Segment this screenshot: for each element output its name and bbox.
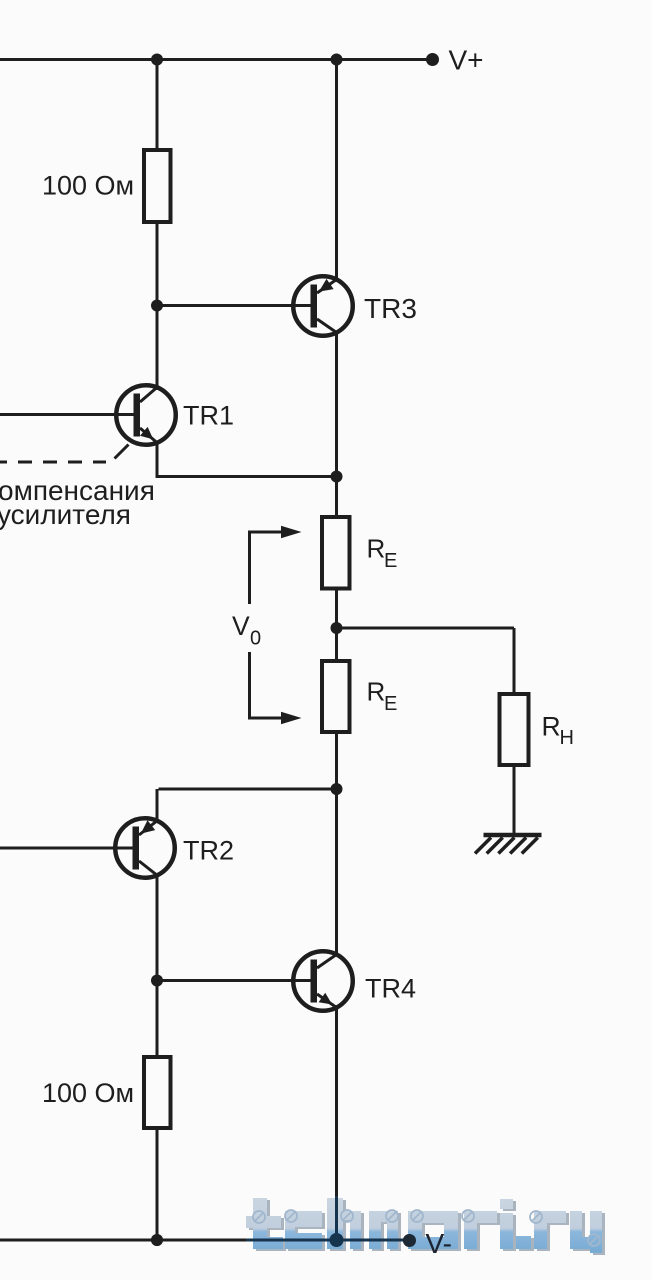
svg-text:V-: V- [426, 1228, 452, 1259]
svg-text:E: E [384, 550, 397, 572]
svg-text:V+: V+ [449, 45, 484, 76]
svg-text:R: R [367, 534, 386, 564]
svg-text:TR4: TR4 [365, 974, 416, 1004]
svg-text:TR1: TR1 [183, 401, 234, 431]
svg-text:V: V [232, 611, 250, 641]
svg-text:TR2: TR2 [183, 836, 234, 866]
svg-text:E: E [384, 693, 397, 715]
svg-text:усилителя: усилителя [0, 499, 131, 530]
svg-text:100 Ом: 100 Ом [42, 171, 134, 201]
svg-text:H: H [560, 727, 574, 749]
svg-text:TR3: TR3 [364, 293, 417, 324]
svg-text:0: 0 [250, 628, 261, 650]
svg-text:R: R [367, 677, 386, 707]
svg-text:100 Ом: 100 Ом [42, 1078, 134, 1108]
svg-text:R: R [542, 712, 561, 742]
